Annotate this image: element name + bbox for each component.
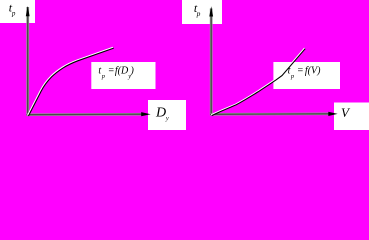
left graph: formula box bbox=[91, 62, 155, 89]
right graph: x-axis wire bbox=[210, 113, 330, 116]
svg-text:=: = bbox=[297, 65, 304, 76]
right graph: y-axis arrowhead bbox=[209, 6, 213, 16]
right graph: x-axis label box bbox=[334, 103, 369, 131]
left graph: y-axis label box bbox=[0, 0, 35, 23]
svg-text:y: y bbox=[165, 115, 169, 122]
svg-text:): ) bbox=[130, 65, 135, 76]
svg-text:p: p bbox=[290, 73, 295, 80]
svg-text:D: D bbox=[155, 106, 166, 121]
right graph: rising curve (white halo) bbox=[211, 48, 305, 115]
left graph: x-axis label box bbox=[148, 100, 186, 130]
right graph: y-axis label box bbox=[182, 0, 222, 24]
left graph: saturating curve bbox=[28, 48, 113, 116]
right graph: y-axis wire bbox=[210, 9, 213, 116]
left graph: x-axis wire bbox=[27, 113, 144, 116]
right graph: rising curve bbox=[212, 49, 306, 116]
svg-text:=: = bbox=[108, 65, 115, 76]
left graph: x-axis arrowhead bbox=[141, 112, 150, 116]
svg-text:f(D: f(D bbox=[115, 65, 129, 76]
left graph: saturating curve (white halo) bbox=[28, 47, 113, 115]
left graph: y-axis arrowhead bbox=[26, 6, 30, 16]
right graph: x-axis arrowhead bbox=[328, 112, 337, 116]
svg-text:p: p bbox=[11, 9, 16, 17]
left graph: y-axis wire bbox=[26, 7, 29, 116]
svg-text:f(V): f(V) bbox=[305, 65, 321, 76]
svg-text:p: p bbox=[101, 73, 106, 80]
right graph: formula box bbox=[273, 62, 340, 89]
svg-text:p: p bbox=[196, 9, 201, 18]
